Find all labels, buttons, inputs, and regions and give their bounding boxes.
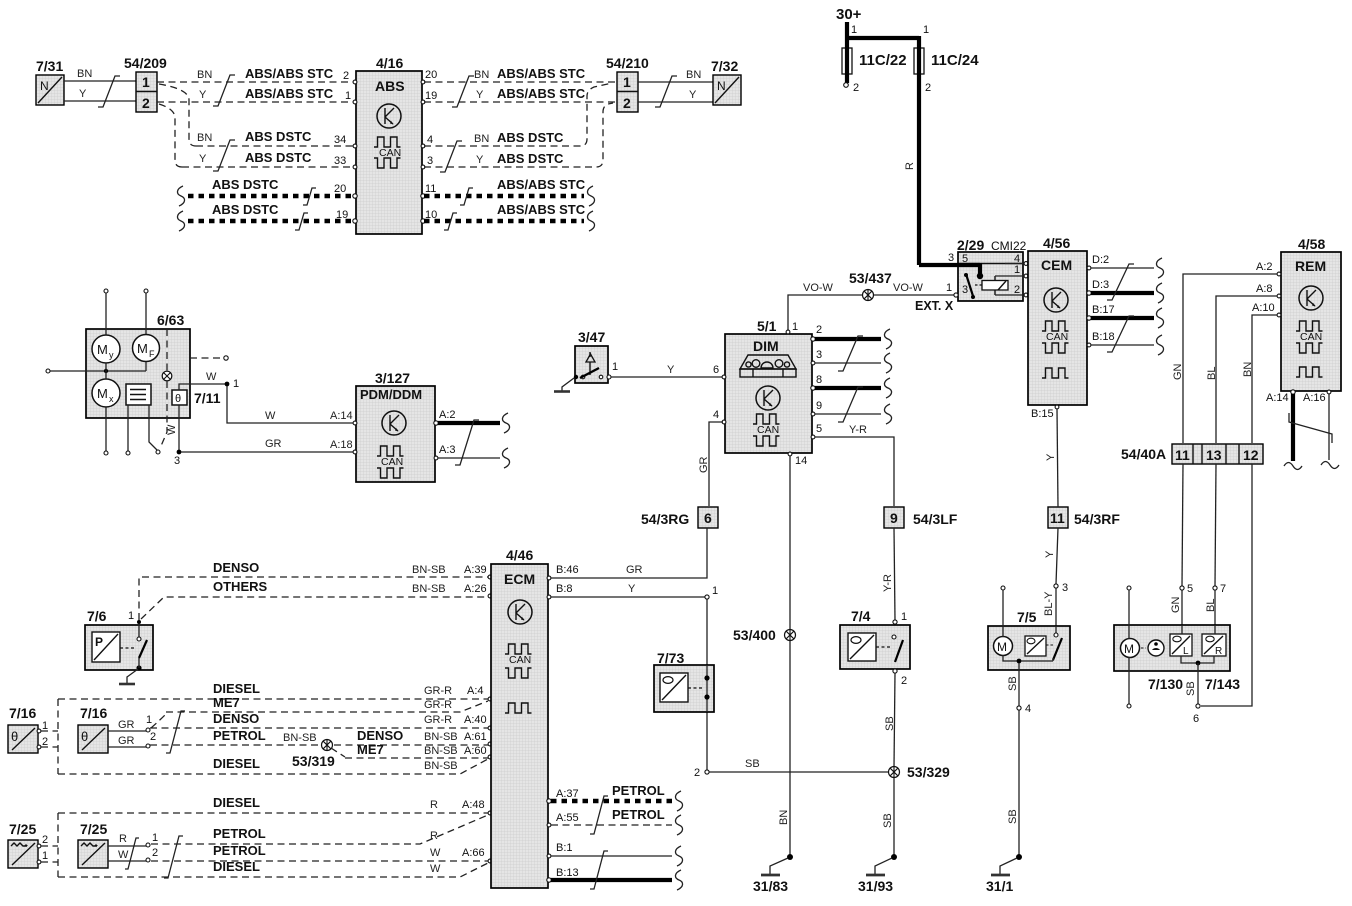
svg-text:Y: Y [667, 364, 675, 376]
svg-text:VO-W: VO-W [803, 282, 834, 294]
svg-text:6: 6 [713, 364, 719, 376]
accelerator sensor 7/25 left [8, 821, 38, 868]
svg-text:M: M [97, 342, 108, 357]
wire BN REM A:10 to 54/40A pin12 [1242, 302, 1281, 443]
svg-text:1: 1 [851, 24, 857, 36]
svg-text:Y: Y [199, 153, 207, 165]
svg-text:7/4: 7/4 [851, 608, 871, 624]
svg-text:CAN: CAN [1300, 331, 1322, 343]
svg-text:R: R [1215, 646, 1222, 657]
wire BL into 7/143 R box [1214, 625, 1216, 634]
svg-text:ABS/ABS STC: ABS/ABS STC [497, 66, 586, 81]
svg-text:A:14: A:14 [1266, 392, 1289, 404]
svg-text:SB: SB [1007, 809, 1019, 824]
mirror motor unit 7/5 [988, 609, 1070, 670]
splice 53/329 [889, 764, 951, 780]
wire ECM B:13 thick [547, 867, 672, 882]
svg-text:1: 1 [901, 611, 907, 623]
svg-text:3: 3 [948, 252, 954, 264]
7/130 sensor L box [1170, 634, 1192, 657]
svg-text:20: 20 [334, 183, 346, 195]
connector pass symbol B:1 B:13 [590, 851, 608, 889]
wire A:14 REM thick [1266, 390, 1295, 461]
splice 53/319 [292, 740, 345, 770]
svg-text:3: 3 [427, 155, 433, 167]
wire BN ABS DSTC to ABS pin34 [196, 129, 354, 146]
terminal 7/16 left pin2 [37, 736, 48, 749]
svg-text:θ: θ [81, 729, 88, 744]
svg-text:GR-R: GR-R [424, 699, 452, 711]
svg-text:11: 11 [425, 183, 436, 195]
svg-text:1: 1 [946, 282, 952, 294]
svg-text:1: 1 [923, 24, 929, 36]
curly end ABS DSTC pin20 [177, 186, 184, 206]
svg-text:M: M [97, 386, 108, 401]
wire W 7/25 pin2 [108, 847, 158, 862]
svg-text:53/400: 53/400 [733, 627, 776, 643]
wire terminal1 down to 7/73 [706, 599, 708, 772]
svg-text:BN-SB: BN-SB [424, 731, 458, 743]
motor assembly 6/63 [86, 312, 190, 418]
CEM K symbol [1044, 288, 1068, 312]
svg-text:DIESEL: DIESEL [213, 795, 260, 810]
svg-text:B:8: B:8 [556, 583, 573, 595]
svg-text:Y: Y [1045, 453, 1057, 461]
svg-text:9: 9 [816, 400, 822, 412]
svg-text:7/143: 7/143 [1205, 676, 1240, 692]
wire 30+ feed top rail [845, 36, 919, 40]
wire DIESEL BN-SB joining A:60 [58, 756, 488, 774]
ECM CAN symbol [505, 644, 532, 713]
connector pass symbol on 7/31 wires [98, 76, 120, 107]
svg-text:BN-SB: BN-SB [424, 760, 458, 772]
wire PDM A:2 thick [434, 409, 500, 425]
terminal 7/4 pin2 [893, 669, 907, 687]
ground at 3/47 [554, 378, 574, 392]
svg-text:θ: θ [11, 729, 18, 744]
connector pass symbol D:2 D:3 [1107, 264, 1134, 300]
svg-text:BN: BN [197, 69, 212, 81]
wire ABS/ABS STC thick ABS pin11 [424, 177, 586, 196]
relay 2/29 CMI22 [957, 237, 1027, 301]
svg-text:2: 2 [42, 736, 48, 748]
svg-text:REM: REM [1295, 258, 1326, 274]
wire SB to terminal 6 [1185, 663, 1200, 725]
svg-text:R: R [430, 799, 438, 811]
wire Y ABS/ABS STC ABS pin19 to 54/210 pin2 [424, 86, 615, 102]
wire Y CEM B:15 down to 54/3RF [1031, 405, 1059, 507]
svg-text:4: 4 [1025, 703, 1031, 715]
svg-text:DIESEL: DIESEL [213, 859, 260, 874]
svg-text:L: L [1183, 646, 1189, 657]
svg-text:10: 10 [425, 209, 437, 221]
svg-text:1: 1 [612, 361, 618, 373]
curly end pin8 [884, 378, 891, 398]
svg-text:OTHERS: OTHERS [213, 579, 268, 594]
svg-text:DIESEL: DIESEL [213, 681, 260, 696]
curly end ABS DSTC pin19 [177, 211, 184, 231]
svg-text:CEM: CEM [1041, 257, 1072, 273]
wire DIM pin8 thick [811, 374, 881, 390]
wire R 7/25 pin1 [108, 832, 158, 847]
7/130 motor M [1121, 639, 1140, 658]
svg-text:7: 7 [1220, 583, 1226, 595]
svg-text:14: 14 [795, 455, 807, 467]
terminal CEM D:4 [1024, 262, 1028, 266]
svg-text:GR: GR [626, 564, 643, 576]
svg-text:M: M [1124, 642, 1134, 656]
CEM control unit 4/56 [1028, 235, 1087, 405]
svg-text:W: W [265, 410, 276, 422]
fuel pump unit 7/73 [654, 650, 714, 712]
connector 54/209 [124, 55, 167, 112]
7/143 sensor R box [1202, 634, 1226, 657]
terminal 7/25 left pin1 [37, 850, 48, 864]
svg-text:Y: Y [689, 89, 697, 101]
svg-text:4/58: 4/58 [1298, 236, 1325, 252]
svg-text:BN-SB: BN-SB [283, 732, 317, 744]
wire ME7 GR-R joining A:4 [166, 695, 488, 712]
svg-text:1: 1 [712, 585, 718, 597]
svg-text:PETROL: PETROL [213, 826, 266, 841]
motor Mx [92, 379, 120, 407]
svg-text:11C/22: 11C/22 [859, 52, 907, 69]
svg-text:W: W [430, 847, 441, 859]
svg-text:ECM: ECM [504, 571, 535, 587]
wire Y 54/3RF to 7/5 pin3 [1044, 528, 1068, 594]
svg-text:8: 8 [816, 374, 822, 386]
svg-text:5: 5 [816, 423, 822, 435]
svg-text:3/47: 3/47 [578, 329, 605, 345]
7/73 internal contacts [704, 665, 709, 712]
svg-text:3/127: 3/127 [375, 370, 410, 386]
svg-text:ME7: ME7 [357, 742, 384, 757]
svg-text:BN-SB: BN-SB [424, 745, 458, 757]
wire GR terminal3 to A:18 [181, 438, 354, 452]
svg-text:1: 1 [146, 714, 152, 726]
wire Y ABS DSTC to ABS pin33 [182, 150, 354, 167]
curly end D:2 [1156, 258, 1163, 278]
svg-text:3: 3 [816, 349, 822, 361]
relay 2/29 coil [982, 276, 1008, 295]
connector pass on pin11 wire [460, 188, 473, 205]
wire DENSO GR-R to ECM A:40 [150, 711, 492, 730]
terminal CEM pin2 [1024, 293, 1028, 297]
switch in 7/6 [136, 624, 147, 671]
svg-text:20: 20 [425, 69, 437, 81]
svg-text:BN-SB: BN-SB [412, 583, 446, 595]
temperature sensor 7/16 left [8, 705, 38, 753]
wire SB 7/5 to terminal 4 [1007, 663, 1031, 715]
svg-text:A:40: A:40 [464, 714, 487, 726]
svg-text:B:13: B:13 [556, 867, 579, 879]
svg-text:ABS DSTC: ABS DSTC [245, 150, 312, 165]
svg-text:ABS/ABS STC: ABS/ABS STC [245, 86, 334, 101]
wire SB terminal4 to ground [1007, 710, 1019, 855]
svg-text:D:2: D:2 [1092, 254, 1109, 266]
svg-text:54/209: 54/209 [124, 55, 167, 71]
splice 53/400 [733, 627, 796, 643]
curly end pin2 [884, 329, 891, 349]
wire BL-Y 7/5 pin3 into box [1043, 588, 1056, 633]
connector pass symbol 7/16 rows [166, 711, 185, 753]
svg-text:31/83: 31/83 [753, 878, 788, 894]
terminal 7/4 pin1 [893, 611, 907, 624]
svg-text:A:10: A:10 [1252, 302, 1275, 314]
DIM control unit 5/1 [725, 318, 812, 453]
svg-text:PETROL: PETROL [612, 783, 665, 798]
svg-text:1: 1 [42, 720, 48, 732]
wire ME7 BN-SB to ECM A:60 [345, 742, 492, 759]
wire My top stub [104, 289, 108, 335]
svg-text:2: 2 [142, 95, 150, 111]
terminal DIM pin6 [713, 364, 726, 379]
svg-text:Y: Y [476, 89, 484, 101]
svg-text:ABS DSTC: ABS DSTC [212, 177, 279, 192]
dashed wire 6/63 to terminal [190, 356, 228, 360]
wire CEM B:18 [1087, 331, 1154, 347]
connector 54/210 [606, 55, 649, 112]
wire SB terminal2 to splice 53/329 [709, 758, 889, 772]
svg-text:CAN: CAN [1046, 331, 1068, 343]
svg-text:2: 2 [343, 70, 349, 82]
wire BN ABS/ABS STC ABS pin20 to 54/210 pin1 [424, 66, 615, 82]
svg-text:2: 2 [694, 767, 700, 779]
svg-text:A:2: A:2 [439, 409, 456, 421]
svg-text:1: 1 [233, 378, 239, 390]
svg-text:6: 6 [704, 510, 712, 526]
svg-text:53/319: 53/319 [292, 753, 335, 769]
wire R into relay 2/29 pin3 [919, 252, 983, 279]
svg-text:34: 34 [334, 134, 346, 146]
switch blade 7/4 [892, 635, 903, 662]
svg-text:2: 2 [1014, 284, 1020, 296]
motor My [92, 335, 120, 363]
wire GN 54/40A to 7/130 pin5 [1170, 464, 1193, 634]
svg-text:33: 33 [334, 155, 346, 167]
temperature sensor 7/16 mid [78, 705, 108, 753]
svg-text:A:2: A:2 [1256, 261, 1273, 273]
ABS CAN symbol [374, 137, 401, 168]
svg-text:ABS/ABS STC: ABS/ABS STC [497, 177, 586, 192]
svg-text:19: 19 [425, 90, 437, 102]
connector pass symbol ABS DSTC pair [213, 140, 235, 171]
wire Y ABS/ABS STC 54/209 pin2 to ABS pin1 [157, 86, 354, 102]
svg-text:A:55: A:55 [556, 812, 579, 824]
svg-text:A:18: A:18 [330, 439, 353, 451]
curly end A:16 [1321, 462, 1339, 469]
ground 31/93 [858, 854, 897, 894]
inline connector 54/3RG [641, 507, 718, 528]
wire 30+ feed left branch [847, 22, 859, 94]
svg-text:ABS: ABS [375, 78, 405, 94]
svg-text:7/32: 7/32 [711, 58, 738, 74]
wire CEM D:3 thick [1087, 279, 1154, 295]
connector pass symbol 7/25 rows [164, 836, 183, 878]
wire Y-R DIM pin5 to 54/3LF [811, 423, 894, 506]
wire BN ABS/ABS STC 54/209 pin1 to ABS pin2 [157, 66, 354, 82]
svg-text:BN: BN [77, 68, 92, 80]
svg-text:2: 2 [816, 324, 822, 336]
terminal DIM pin1 [786, 321, 798, 334]
mirror unit 7/130 7/143 [1114, 625, 1240, 692]
svg-text:A:3: A:3 [439, 444, 456, 456]
splice 53/437 [849, 270, 892, 301]
svg-text:GR: GR [698, 456, 710, 473]
REM K symbol [1299, 286, 1323, 310]
dashed stubs 7/16 left [41, 731, 58, 747]
connector pass symbol A:2 A:3 [455, 420, 479, 465]
svg-text:2: 2 [42, 834, 48, 846]
7/130 internal SB rail [1181, 656, 1214, 665]
svg-text:CAN: CAN [379, 147, 401, 159]
svg-text:y: y [109, 350, 114, 360]
fuse 11C/24 [914, 48, 979, 74]
terminal PDM A:18 [353, 450, 357, 454]
connector pass on pin20 wire [303, 188, 316, 205]
terminal 7/16 left pin1 [37, 720, 48, 733]
svg-text:31/93: 31/93 [858, 878, 893, 894]
svg-text:ABS DSTC: ABS DSTC [497, 130, 564, 145]
svg-text:1: 1 [792, 321, 798, 333]
svg-text:7/5: 7/5 [1017, 609, 1037, 625]
wire W terminal1 down to A:14 row [227, 386, 354, 423]
wire DIESEL R to ECM A:48 [58, 795, 492, 815]
svg-text:B:18: B:18 [1092, 331, 1115, 343]
terminal DIM pin14 [788, 452, 807, 467]
svg-text:7/73: 7/73 [657, 650, 684, 666]
connector pass symbol A:37 A:55 [590, 796, 608, 834]
svg-text:1: 1 [623, 74, 631, 90]
svg-text:5: 5 [1187, 583, 1193, 595]
svg-text:54/210: 54/210 [606, 55, 649, 71]
svg-text:1: 1 [42, 850, 48, 862]
terminal 7/6 pin1 [128, 610, 141, 624]
svg-text:GR: GR [118, 735, 135, 747]
connector pass symbol 7/32 wires [655, 76, 677, 107]
svg-text:2: 2 [150, 731, 156, 743]
svg-text:θ: θ [175, 393, 181, 405]
terminal CEM pin1 [1024, 274, 1028, 278]
wire DIM pin3 [811, 349, 881, 365]
wire BN 54/210 to 7/32 [638, 69, 713, 82]
wire DIESEL GR-R to ECM A:4 [58, 681, 492, 701]
svg-text:7/16: 7/16 [80, 705, 107, 721]
switch 3/47 blade [574, 361, 618, 379]
svg-text:5/1: 5/1 [757, 318, 777, 334]
svg-text:BN: BN [474, 133, 489, 145]
switch 3/47 [575, 329, 608, 383]
svg-text:CAN: CAN [381, 456, 403, 468]
svg-text:3: 3 [1062, 582, 1068, 594]
svg-text:A:61: A:61 [464, 731, 487, 743]
svg-text:M: M [997, 640, 1007, 654]
ground 31/1 [986, 854, 1022, 894]
svg-text:SB: SB [1185, 681, 1197, 696]
wire Y ABS DSTC ABS pin3 loop [424, 103, 613, 167]
wire A:16 REM [1303, 390, 1331, 460]
connector pass symbol 7/25 wires [125, 838, 139, 869]
REM control unit 4/58 [1281, 236, 1341, 391]
svg-text:1: 1 [128, 610, 134, 622]
wire CEM B:17 thick [1087, 304, 1154, 320]
dashed stubs 7/25 left [41, 846, 58, 862]
wire branch 54/209 pin2 down [159, 104, 182, 167]
svg-text:2: 2 [925, 82, 931, 94]
REM CAN symbol [1296, 321, 1323, 377]
svg-text:ABS DSTC: ABS DSTC [497, 151, 564, 166]
svg-text:19: 19 [336, 209, 348, 221]
wire BN ABS DSTC ABS pin4 loop [424, 83, 612, 146]
wire BN 7/31 to 54/209 [64, 68, 136, 81]
svg-text:A:8: A:8 [1256, 283, 1273, 295]
wire CEM D:2 [1087, 254, 1154, 270]
svg-text:A:4: A:4 [467, 685, 484, 697]
svg-text:BN: BN [474, 69, 489, 81]
wire ECM B:1 [547, 842, 672, 858]
wire ABS DSTC extra thick to ABS pin19 [188, 202, 354, 221]
svg-text:4: 4 [713, 409, 719, 421]
control unit 7/32 [711, 58, 741, 105]
svg-text:A:26: A:26 [464, 583, 487, 595]
wire Y 7/31 to 54/209 [64, 88, 136, 101]
svg-text:7/25: 7/25 [9, 821, 36, 837]
wire theta bottom to terminal 3 [174, 405, 181, 467]
svg-text:ABS/ABS STC: ABS/ABS STC [497, 202, 586, 217]
wire SB splice to ground [882, 778, 894, 855]
svg-text:11: 11 [1050, 510, 1065, 526]
PDM CAN symbol [377, 446, 404, 478]
svg-text:N: N [40, 79, 49, 93]
svg-text:W: W [206, 371, 217, 383]
CEM CAN symbol [1042, 321, 1069, 378]
svg-text:DENSO: DENSO [357, 728, 403, 743]
svg-text:BL: BL [1206, 367, 1218, 380]
svg-text:2: 2 [623, 95, 631, 111]
wire heater bottom stub [126, 405, 130, 455]
curly end B:17 [1156, 308, 1163, 328]
wire DIM pin2 thick [811, 324, 881, 341]
svg-text:A:60: A:60 [464, 745, 487, 757]
curly end A:3 [502, 448, 509, 468]
wire GR DIM pin4 to 54/3RG [698, 422, 723, 506]
lamp symbol [162, 371, 172, 381]
terminal fuse 11C/22 pin2 [844, 83, 849, 88]
wire SB 7/4 pin2 to splice [884, 673, 896, 767]
inline connector 54/3LF [884, 507, 958, 528]
svg-text:CMI22: CMI22 [991, 239, 1027, 253]
terminal DIM pin4 [713, 409, 726, 424]
curly end B:18 [1156, 335, 1163, 355]
svg-text:BN: BN [1242, 362, 1254, 377]
curly end D:3 [1156, 283, 1163, 303]
7/130 left stub wires [1127, 586, 1131, 708]
svg-text:2: 2 [152, 847, 158, 859]
wire MF top stub [144, 289, 148, 334]
svg-text:30+: 30+ [836, 6, 862, 23]
connector pass on pin19 wire [295, 213, 308, 230]
relay 2/29 switch [964, 273, 982, 299]
svg-text:SB: SB [1007, 676, 1019, 691]
svg-text:ABS DSTC: ABS DSTC [212, 202, 279, 217]
svg-text:4/16: 4/16 [376, 55, 403, 71]
svg-text:11C/24: 11C/24 [931, 52, 979, 69]
svg-text:3: 3 [962, 284, 968, 296]
wire BL 54/40A to 7/143 pin7 [1205, 464, 1226, 634]
svg-text:B:46: B:46 [556, 564, 579, 576]
terminal 7/25 left pin2 [37, 834, 48, 848]
wire Y 54/210 to 7/32 [638, 89, 713, 102]
